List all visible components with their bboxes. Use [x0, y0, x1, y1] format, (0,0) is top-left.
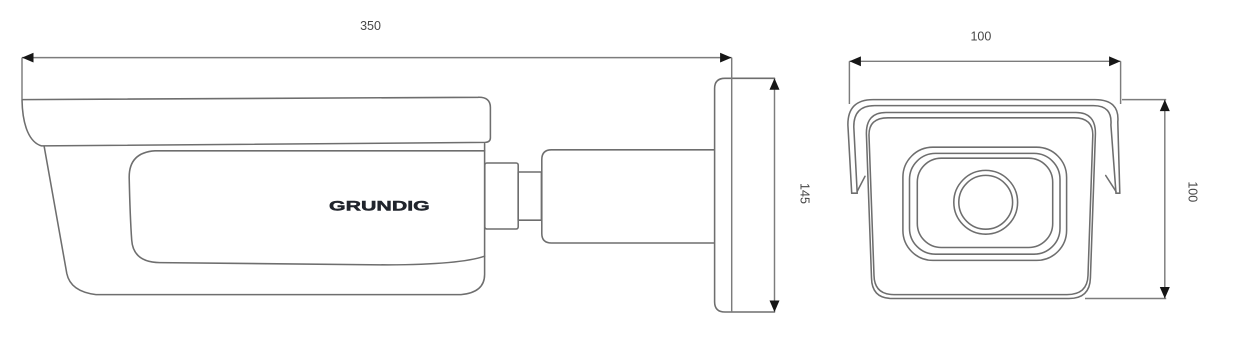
arrow 145 bottom: [770, 301, 780, 313]
dim 100 right line (front view): [1164, 100, 1166, 299]
side view: bracket foot: [485, 163, 518, 229]
flap bevels: [857, 176, 865, 191]
front view: shield outer: [848, 100, 1120, 194]
arrow 145 top: [770, 78, 780, 90]
dimension lines: [22, 58, 1166, 312]
ext line right / plate right edge: [731, 58, 733, 312]
dim 145 line: [774, 78, 776, 312]
front view: face inner: [869, 118, 1093, 295]
side view: bracket arm: [542, 150, 714, 243]
arrow 100r top: [1160, 100, 1170, 112]
svg-text:350: 350: [360, 19, 381, 33]
side view: sun shield: [22, 97, 490, 146]
arrow 100 left: [849, 56, 861, 66]
lens outer circle: [954, 170, 1018, 234]
lens bezel rect A: [903, 147, 1067, 260]
ext bottom right: [1085, 298, 1166, 300]
GRUNDIG logo: [329, 198, 430, 214]
ext line left: [21, 58, 23, 99]
ext lines front top dim: [848, 61, 850, 104]
side view: mounting plate: [715, 78, 775, 312]
svg-text:145: 145: [797, 183, 811, 204]
side view: bracket neck: [518, 172, 541, 220]
dim 350 line: [22, 57, 732, 59]
lens bezel rect C: [917, 158, 1052, 247]
ext top right: [1122, 99, 1166, 101]
lens bezel rect B: [910, 153, 1061, 254]
svg-text:100: 100: [1186, 181, 1200, 202]
front view: shield inner: [854, 106, 1116, 194]
svg-text:100: 100: [970, 29, 991, 43]
arrows: [22, 53, 1170, 312]
arrow 100 right: [1109, 56, 1121, 66]
dim 100 top line (front view): [849, 60, 1120, 62]
side view: front panel recess: [129, 151, 484, 265]
arrow 350 left: [22, 53, 34, 63]
svg-text:GRUNDIG: GRUNDIG: [329, 198, 430, 214]
arrow 100r bottom: [1160, 287, 1170, 299]
lens inner circle: [959, 175, 1013, 229]
flap tips: [852, 192, 858, 194]
arrow 350 right: [720, 53, 732, 63]
side view: camera body: [44, 144, 484, 295]
front view: face outer: [866, 113, 1095, 299]
